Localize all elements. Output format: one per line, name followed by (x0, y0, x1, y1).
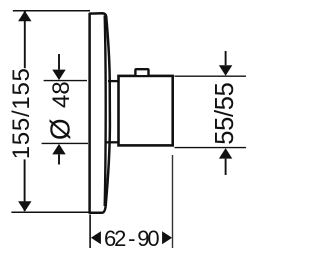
extension line right bottom (y=147.5) (175, 147, 247, 149)
sleeve top line (108, 80, 118, 82)
svg-text:155/155: 155/155 (8, 68, 35, 159)
arrowhead 55/55 bottom (points up) (219, 148, 232, 159)
arrowhead 55/55 top (points down) (219, 65, 232, 76)
arrowhead Ø48 bottom (points up) (52, 144, 65, 155)
extension line Ø48 bottom (sleeve bottom, y=142.8) (42, 142, 88, 144)
extension line bottom dim right (x=173.4) (172, 155, 174, 248)
dimension stub Ø48 top (58, 54, 60, 70)
arrowhead 62-90 left (points left) (91, 231, 101, 244)
svg-text:55/55: 55/55 (211, 82, 239, 145)
arrowhead Ø48 top (points down) (52, 70, 65, 81)
svg-text:Ø: Ø (45, 118, 76, 140)
extension line Ø48 top (sleeve top, y=79.8) (44, 80, 87, 82)
svg-text:48: 48 (48, 81, 75, 108)
extension line top-left (plate top, y=10.7) (13, 10, 90, 12)
plate front face inner line (105, 16, 106, 207)
sleeve bottom line (107, 141, 119, 143)
arrowhead 62-90 right (points right) (162, 231, 172, 244)
dimension stub Ø48 bottom (58, 154, 60, 164)
arrowhead 155/155 bottom (points down) (18, 201, 31, 211)
extension line bottom-left (plate bottom, y=211.9) (11, 211, 95, 213)
dimension line 155/155 upper segment (24, 11, 26, 68)
valve body rectangle (119, 76, 173, 145)
svg-text:62 - 90: 62 - 90 (104, 226, 160, 251)
dimension stub 55/55 bottom (225, 159, 227, 175)
escutcheon plate outline (side view) (90, 13, 110, 213)
stop tab on body top (135, 69, 148, 75)
dimension line 155/155 lower segment (24, 159, 26, 211)
arrowhead 155/155 top (points up) (18, 11, 31, 21)
dimension stub 55/55 top (225, 51, 227, 65)
extension line bottom dim left (x=92.3) (89, 215, 91, 249)
extension line right top (body top, y=75.5) (175, 75, 247, 77)
